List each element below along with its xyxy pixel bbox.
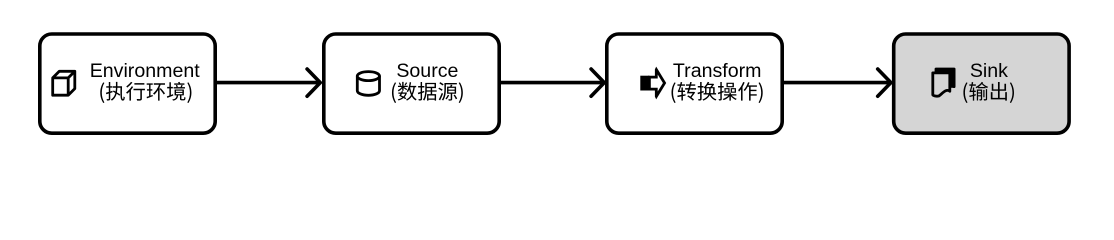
svg-text:Source: Source [396,60,458,82]
svg-text:Transform: Transform [673,60,762,82]
svg-text:Environment: Environment [90,60,201,82]
svg-text:Sink: Sink [970,60,1008,82]
